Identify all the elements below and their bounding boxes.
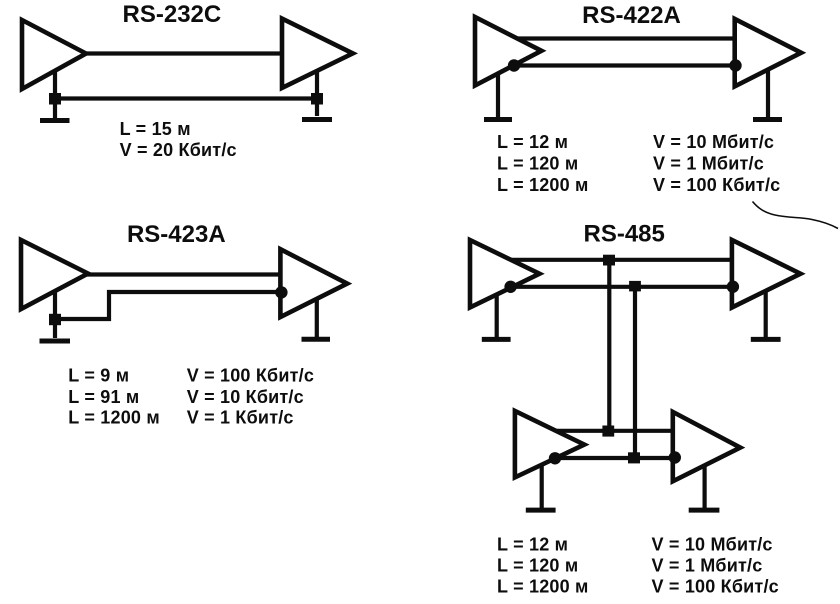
svg-text:V = 10 Мбит/с: V = 10 Мбит/с xyxy=(652,535,773,555)
svg-text:V = 100 Кбит/с: V = 100 Кбит/с xyxy=(653,175,780,195)
svg-text:RS-423A: RS-423A xyxy=(127,221,226,248)
svg-text:RS-485: RS-485 xyxy=(584,221,665,248)
svg-text:V = 1 Мбит/с: V = 1 Мбит/с xyxy=(653,154,764,174)
svg-text:RS-422A: RS-422A xyxy=(582,2,681,29)
svg-text:L = 1200 м: L = 1200 м xyxy=(497,577,589,597)
svg-text:RS-232C: RS-232C xyxy=(123,1,222,28)
svg-text:L = 1200 м: L = 1200 м xyxy=(68,408,160,428)
svg-text:V = 100 Кбит/с: V = 100 Кбит/с xyxy=(652,577,779,597)
svg-text:L = 91 м: L = 91 м xyxy=(68,387,139,407)
svg-text:V = 10 Кбит/с: V = 10 Кбит/с xyxy=(187,387,304,407)
svg-text:V = 1 Кбит/с: V = 1 Кбит/с xyxy=(187,408,294,428)
svg-text:L = 12 м: L = 12 м xyxy=(497,535,568,555)
svg-text:V = 10 Мбит/с: V = 10 Мбит/с xyxy=(653,132,774,152)
svg-text:V = 20 Кбит/с: V = 20 Кбит/с xyxy=(120,140,237,160)
svg-text:L = 9 м: L = 9 м xyxy=(68,366,129,386)
svg-text:V = 100 Кбит/с: V = 100 Кбит/с xyxy=(187,366,314,386)
svg-text:L = 1200 м: L = 1200 м xyxy=(497,175,589,195)
svg-text:L = 12 м: L = 12 м xyxy=(497,132,568,152)
svg-text:L = 120 м: L = 120 м xyxy=(497,154,578,174)
svg-text:V = 1 Мбит/с: V = 1 Мбит/с xyxy=(652,556,763,576)
svg-text:L = 120 м: L = 120 м xyxy=(497,556,578,576)
svg-text:L = 15 м: L = 15 м xyxy=(120,119,191,139)
